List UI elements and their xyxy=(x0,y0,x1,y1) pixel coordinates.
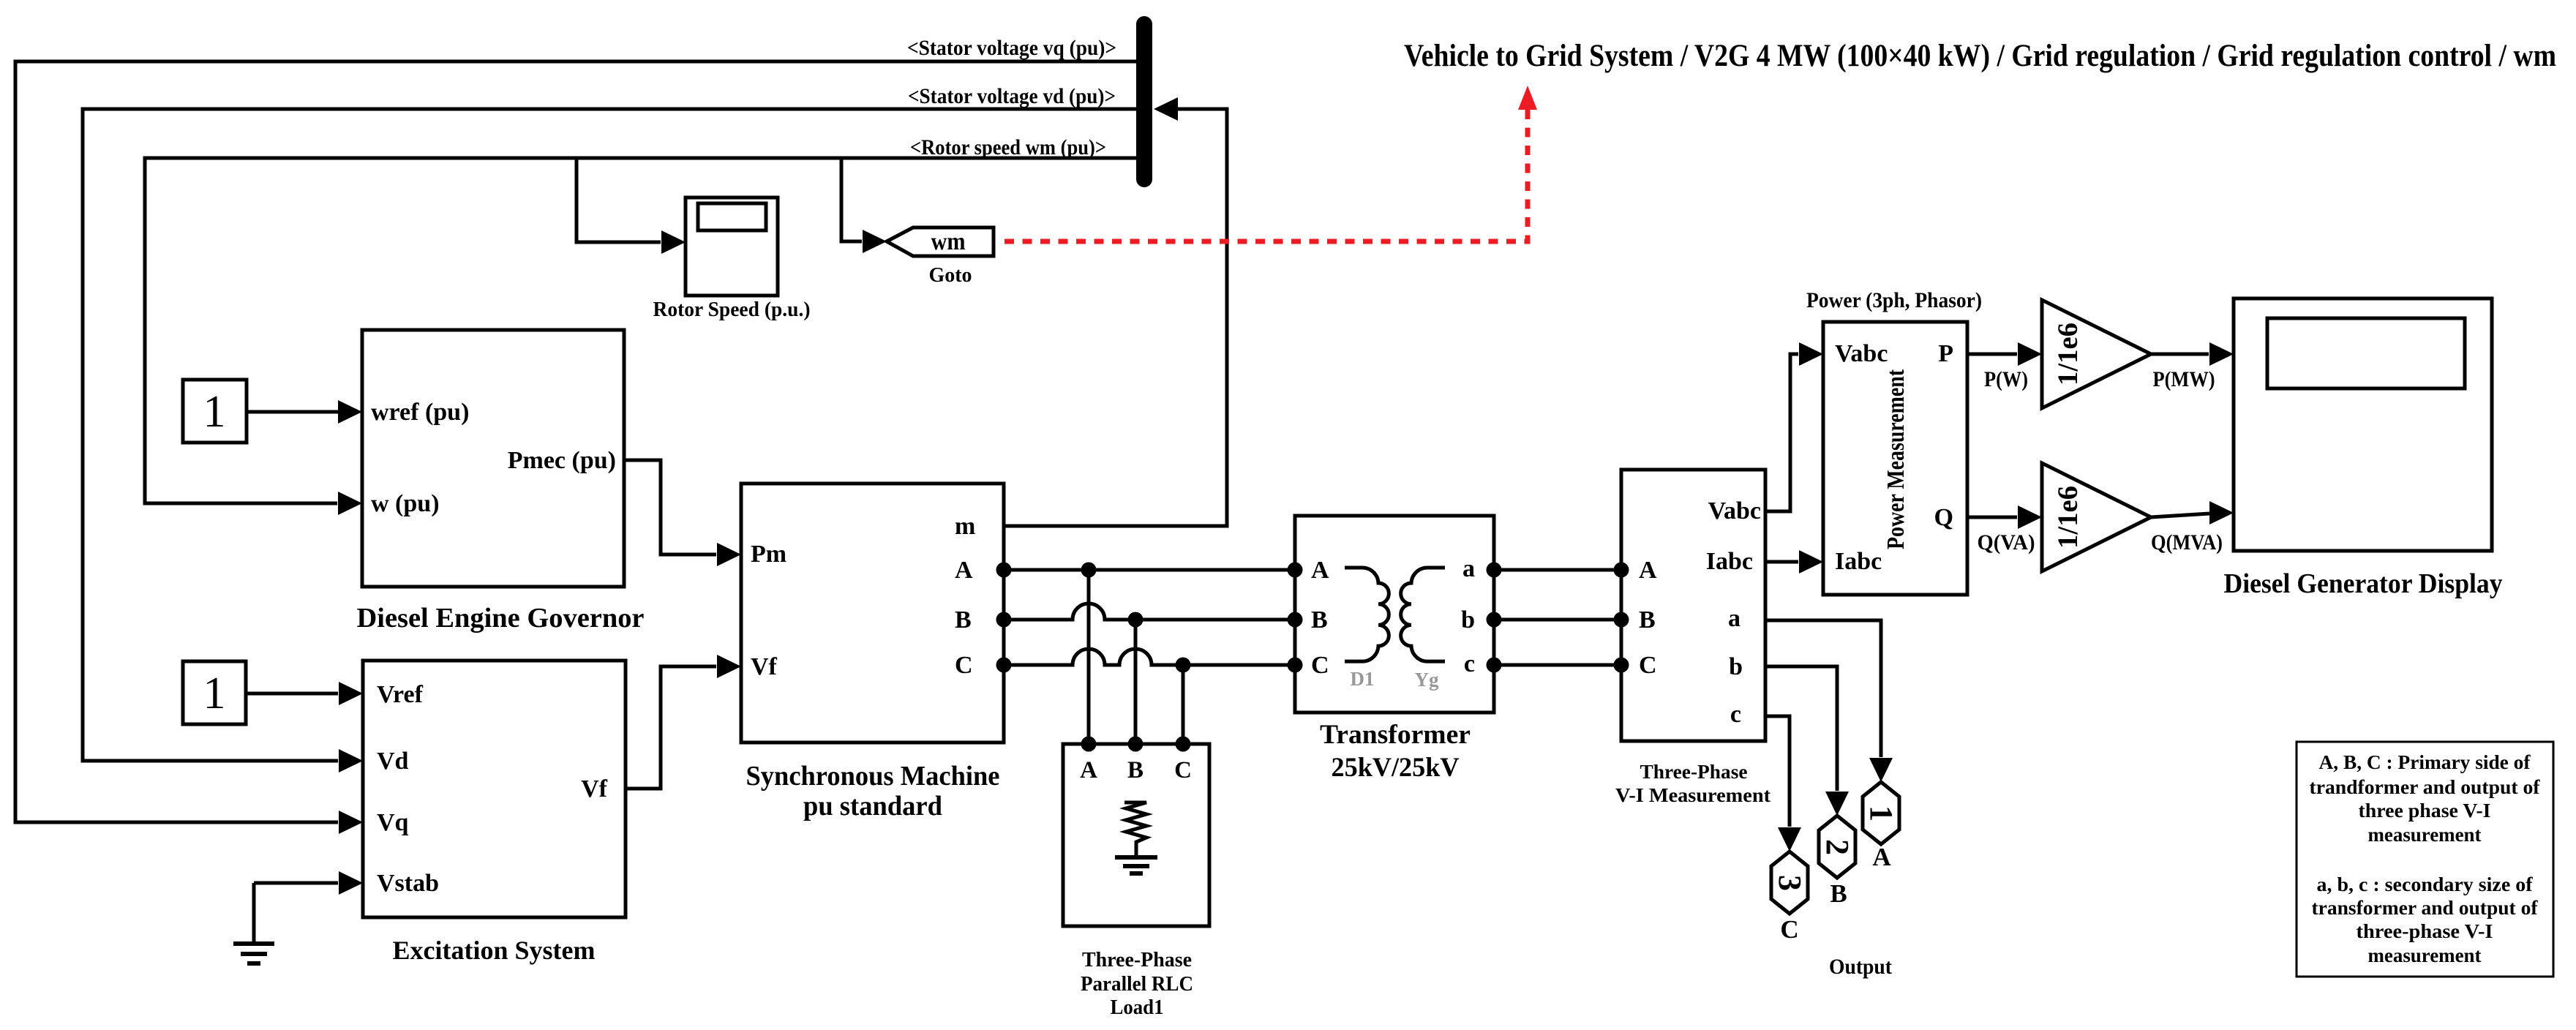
wire P to gain1 xyxy=(1967,353,2017,356)
constant block 1 (wref) xyxy=(183,380,247,443)
wire V-I c to outport 3 xyxy=(1765,716,1790,827)
svg-text:1: 1 xyxy=(203,387,226,437)
junction dot phase A xyxy=(1081,563,1097,578)
svg-text:Q: Q xyxy=(1934,504,1953,531)
scope Rotor Speed (p.u.) xyxy=(686,198,778,296)
transformer winding D1 xyxy=(1345,568,1389,661)
wire branch to Rotor Speed scope xyxy=(577,158,661,242)
svg-text:P(MW): P(MW) xyxy=(2153,367,2215,391)
svg-text:Synchronous Machine: Synchronous Machine xyxy=(746,761,1000,792)
wire V-I Vabc to Power Measurement xyxy=(1765,354,1798,511)
wire phase C transformer to V-I xyxy=(1494,664,1621,667)
transformer port dot A xyxy=(1288,563,1303,578)
svg-text:Pmec (pu): Pmec (pu) xyxy=(508,447,616,474)
svg-text:A: A xyxy=(1639,557,1657,584)
svg-text:A: A xyxy=(1080,757,1097,783)
svg-text:Parallel RLC: Parallel RLC xyxy=(1081,973,1193,996)
svg-text:1: 1 xyxy=(203,669,226,718)
svg-text:Vehicle to Grid System / V2G 4: Vehicle to Grid System / V2G 4 MW (100×4… xyxy=(1404,39,2556,73)
svg-text:c: c xyxy=(1730,701,1741,728)
svg-text:Output: Output xyxy=(1829,955,1892,979)
outport tag 1 A xyxy=(1863,782,1899,844)
svg-text:1: 1 xyxy=(1863,805,1899,822)
svg-text:m: m xyxy=(955,513,975,540)
svg-text:P(W): P(W) xyxy=(1984,367,2028,391)
wire V-I Iabc to Power Measurement xyxy=(1765,560,1798,564)
wire phase B machine to transformer with hop xyxy=(1004,604,1295,620)
block Excitation System xyxy=(363,661,626,917)
svg-text:Q(MVA): Q(MVA) xyxy=(2151,530,2223,555)
outport tag 3 C xyxy=(1771,852,1808,914)
svg-text:w (pu): w (pu) xyxy=(371,490,440,517)
svg-text:B: B xyxy=(1639,606,1656,634)
svg-text:trandformer and output of: trandformer and output of xyxy=(2310,776,2541,798)
svg-text:B: B xyxy=(1311,606,1328,634)
svg-text:three phase V-I: three phase V-I xyxy=(2359,800,2491,822)
svg-text:B: B xyxy=(955,606,972,634)
svg-text:measurement: measurement xyxy=(2368,944,2482,966)
svg-text:Vf: Vf xyxy=(581,775,608,802)
red arrow to title xyxy=(1518,86,1537,110)
svg-text:transformer and output of: transformer and output of xyxy=(2312,897,2539,919)
V-I port dot B xyxy=(1614,612,1629,628)
svg-text:wm: wm xyxy=(931,228,966,255)
svg-text:pu standard: pu standard xyxy=(803,791,942,822)
wire gain1 to display xyxy=(2151,353,2209,356)
wire phase A machine to transformer xyxy=(1004,568,1295,572)
wire branch to Goto wm xyxy=(841,158,862,241)
svg-text:Pm: Pm xyxy=(751,541,786,568)
svg-text:B: B xyxy=(1127,757,1144,783)
ground symbol xyxy=(233,941,274,946)
transformer port dot C xyxy=(1288,658,1303,673)
svg-text:B: B xyxy=(1830,879,1847,908)
svg-text:C: C xyxy=(1639,652,1657,679)
machine port dot A xyxy=(996,563,1012,578)
svg-text:wref (pu): wref (pu) xyxy=(371,399,469,426)
svg-text:Excitation System: Excitation System xyxy=(393,936,596,965)
svg-text:Yg: Yg xyxy=(1415,669,1439,691)
block Diesel Generator Display xyxy=(2234,298,2492,551)
svg-text:a: a xyxy=(1462,555,1475,582)
wire const2 to Excitation Vref xyxy=(246,692,338,696)
wire Stator voltage vq from bus selector to Excitation Vq xyxy=(15,61,1136,822)
svg-text:25kV/25kV: 25kV/25kV xyxy=(1332,753,1460,783)
wire phase B drop to load xyxy=(1134,620,1138,744)
svg-text:Vq: Vq xyxy=(377,809,409,836)
wire V-I a to outport 1 xyxy=(1765,620,1881,757)
transformer port dot b xyxy=(1487,612,1502,628)
bus selector bar xyxy=(1136,24,1152,179)
svg-text:C: C xyxy=(1780,915,1798,944)
svg-text:3: 3 xyxy=(1772,875,1808,891)
svg-text:c: c xyxy=(1464,650,1475,677)
svg-text:Diesel Generator Display: Diesel Generator Display xyxy=(2224,568,2503,599)
wire ground to Vstab xyxy=(254,881,338,885)
block Transformer 25kV/25kV xyxy=(1295,516,1494,713)
svg-text:three-phase V-I: three-phase V-I xyxy=(2357,920,2493,942)
junction dot phase C xyxy=(1176,658,1191,673)
transformer port dot B xyxy=(1288,612,1303,628)
load port dot A xyxy=(1081,737,1097,752)
load resistor icon xyxy=(1124,802,1146,856)
svg-text:Three-Phase: Three-Phase xyxy=(1082,949,1192,971)
wire const1 to Governor wref xyxy=(247,410,338,414)
svg-text:measurement: measurement xyxy=(2368,824,2482,846)
svg-text:1/1e6: 1/1e6 xyxy=(2052,323,2084,386)
svg-text:Iabc: Iabc xyxy=(1835,548,1882,575)
svg-text:V-I Measurement: V-I Measurement xyxy=(1615,784,1770,806)
wire Q to gain2 xyxy=(1967,516,2017,519)
block Three-Phase Parallel RLC Load1 xyxy=(1063,744,1209,926)
load port dot B xyxy=(1128,737,1144,752)
svg-text:Goto: Goto xyxy=(928,264,972,287)
svg-text:Rotor Speed (p.u.): Rotor Speed (p.u.) xyxy=(653,298,811,321)
wire phase C drop to load xyxy=(1182,665,1185,744)
V-I port dot A xyxy=(1614,563,1629,578)
svg-text:Q(VA): Q(VA) xyxy=(1978,530,2035,555)
red dashed signal trace xyxy=(1005,110,1528,241)
goto tag wm xyxy=(887,228,994,256)
svg-text:C: C xyxy=(955,652,973,679)
svg-text:Power Measurement: Power Measurement xyxy=(1882,369,1910,549)
svg-text:A: A xyxy=(955,557,973,584)
svg-text:2: 2 xyxy=(1820,839,1855,855)
block Diesel Engine Governor xyxy=(362,330,624,587)
svg-text:a: a xyxy=(1728,605,1741,632)
transformer port dot a xyxy=(1487,563,1502,578)
gain block 1/1e6 Q xyxy=(2042,463,2151,571)
svg-text:Load1: Load1 xyxy=(1111,996,1164,1019)
constant block 1 (Vref) xyxy=(183,661,246,724)
svg-text:<Stator voltage vq (pu)>: <Stator voltage vq (pu)> xyxy=(907,36,1116,60)
svg-text:C: C xyxy=(1174,757,1192,783)
svg-text:D1: D1 xyxy=(1351,668,1375,690)
note box xyxy=(2297,742,2553,977)
svg-text:Vstab: Vstab xyxy=(377,870,439,897)
svg-text:Vf: Vf xyxy=(751,653,778,680)
svg-text:P: P xyxy=(1938,340,1953,367)
svg-text:b: b xyxy=(1461,606,1475,634)
svg-text:1/1e6: 1/1e6 xyxy=(2052,486,2084,549)
svg-text:C: C xyxy=(1311,652,1329,679)
transformer winding Yg xyxy=(1401,568,1445,661)
svg-text:A: A xyxy=(1311,557,1329,584)
wire phase B transformer to V-I xyxy=(1494,618,1621,622)
svg-text:A: A xyxy=(1872,843,1891,871)
wire Excitation Vf to machine Vf xyxy=(626,666,716,789)
block Three-Phase V-I Measurement xyxy=(1621,470,1765,741)
wire Rotor speed wm from bus selector to Governor w(pu) xyxy=(145,158,1136,503)
svg-text:Vref: Vref xyxy=(377,681,424,708)
junction dot phase B xyxy=(1128,612,1144,628)
machine port dot C xyxy=(996,658,1012,673)
wire Governor Pmec to machine Pm xyxy=(624,460,716,555)
svg-text:<Rotor speed wm (pu)>: <Rotor speed wm (pu)> xyxy=(910,135,1106,159)
svg-text:Iabc: Iabc xyxy=(1706,548,1753,575)
svg-text:Vd: Vd xyxy=(377,748,409,775)
outport tag 2 B xyxy=(1819,816,1855,878)
wire gain2 to display xyxy=(2151,514,2209,517)
load port dot C xyxy=(1176,737,1191,752)
wire phase A transformer to V-I xyxy=(1494,568,1621,572)
wire machine m output to bus selector xyxy=(1004,109,1227,526)
wire V-I b to outport 2 xyxy=(1765,666,1837,791)
svg-text:<Stator voltage vd (pu)>: <Stator voltage vd (pu)> xyxy=(908,84,1116,108)
svg-text:a, b, c : secondary size of: a, b, c : secondary size of xyxy=(2317,873,2534,895)
svg-text:Vabc: Vabc xyxy=(1835,340,1888,367)
svg-text:A, B, C : Primary side of: A, B, C : Primary side of xyxy=(2319,751,2531,773)
svg-text:Three-Phase: Three-Phase xyxy=(1640,761,1748,783)
svg-text:Power (3ph, Phasor): Power (3ph, Phasor) xyxy=(1806,288,1982,312)
transformer port dot c xyxy=(1487,658,1502,673)
wire phase A drop to load xyxy=(1087,570,1091,744)
svg-text:Vabc: Vabc xyxy=(1708,497,1761,525)
machine port dot B xyxy=(996,612,1012,628)
load ground icon xyxy=(1115,855,1157,860)
svg-text:b: b xyxy=(1729,653,1743,680)
gain block 1/1e6 P xyxy=(2042,300,2151,408)
block Power Measurement xyxy=(1823,322,1967,595)
wire Stator voltage vd from bus selector to Excitation Vd xyxy=(83,109,1136,761)
wire phase C machine to transformer with hops xyxy=(1004,649,1295,665)
block Synchronous Machine xyxy=(741,484,1004,743)
V-I port dot C xyxy=(1614,658,1629,673)
svg-text:Diesel Engine Governor: Diesel Engine Governor xyxy=(357,603,645,634)
svg-text:Transformer: Transformer xyxy=(1320,720,1471,750)
